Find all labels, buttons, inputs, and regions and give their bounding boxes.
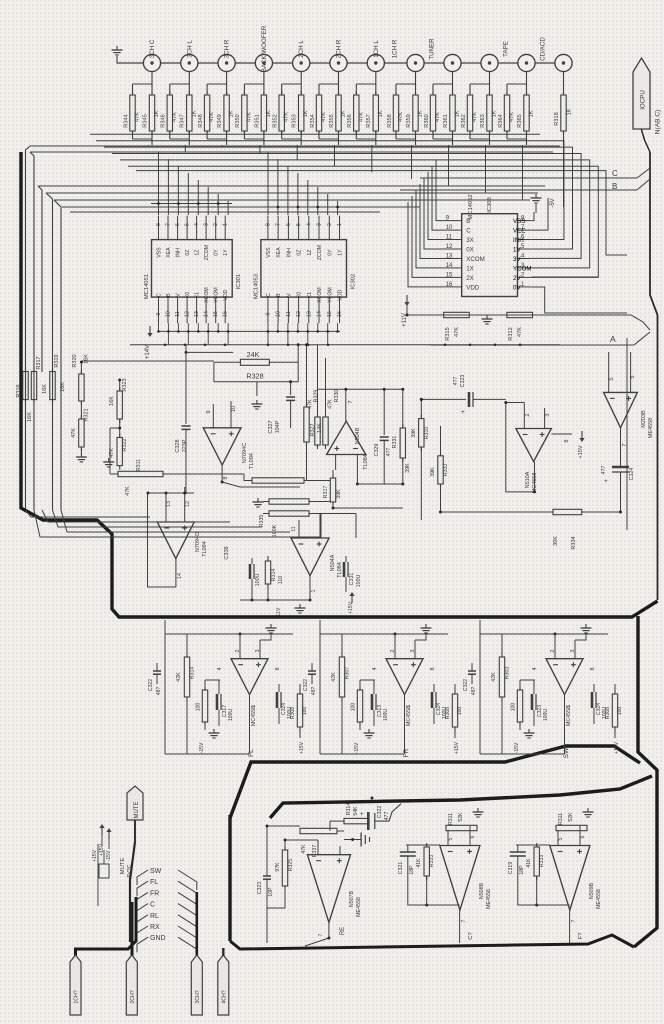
svg-text:R312: R312 xyxy=(508,327,514,340)
svg-text:V: V xyxy=(286,293,292,297)
svg-text:16: 16 xyxy=(446,282,453,288)
svg-text:R345: R345 xyxy=(142,114,148,127)
svg-text:47K: 47K xyxy=(135,112,141,122)
svg-text:100U: 100U xyxy=(383,709,389,721)
svg-text:47K: 47K xyxy=(398,112,404,122)
svg-text:C322: C322 xyxy=(377,806,383,819)
wire jack J10 leads xyxy=(489,72,491,96)
wire verticals to IC tops xyxy=(158,152,160,215)
svg-text:10: 10 xyxy=(166,311,172,317)
svg-text:C321: C321 xyxy=(398,862,404,875)
svg-text:3CH R: 3CH R xyxy=(224,39,231,58)
svg-text:2: 2 xyxy=(213,223,219,226)
svg-text:R349: R349 xyxy=(217,114,223,127)
svg-text:7: 7 xyxy=(276,223,282,226)
wire jack J4 leads xyxy=(263,72,265,96)
resistor R353 1K xyxy=(299,95,304,131)
svg-text:14: 14 xyxy=(317,311,323,317)
svg-text:TUNER: TUNER xyxy=(429,38,436,60)
wire MUTE lead xyxy=(134,820,136,842)
svg-text:6: 6 xyxy=(470,835,476,838)
resistor R307 42K xyxy=(339,657,344,697)
svg-text:0Z: 0Z xyxy=(297,250,303,256)
ground input common xyxy=(116,46,118,50)
wire SW inputs xyxy=(554,634,556,659)
wire jack J7 leads xyxy=(375,72,377,96)
wire FR tie xyxy=(319,620,321,634)
resistor R308 FL xyxy=(297,694,302,727)
svg-text:TL084: TL084 xyxy=(337,562,343,578)
svg-text:1K: 1K xyxy=(378,110,384,117)
op-amp FL xyxy=(231,659,268,695)
svg-text:1CH L: 1CH L xyxy=(373,40,380,58)
svg-text:MC4558: MC4558 xyxy=(566,706,572,726)
svg-text:47K: 47K xyxy=(284,112,290,122)
connector J11 input jack xyxy=(518,54,535,71)
connector J6 input jack xyxy=(330,54,347,71)
svg-text:13: 13 xyxy=(166,501,172,507)
resistor R308 FR xyxy=(452,694,457,727)
svg-text:47K: 47K xyxy=(509,112,515,122)
svg-text:1K: 1K xyxy=(154,110,160,117)
wire FL tie xyxy=(164,620,166,634)
svg-text:R314: R314 xyxy=(346,803,352,816)
svg-text:100U: 100U xyxy=(255,573,261,586)
capacitor C323 100U xyxy=(531,694,534,710)
wire I loop xyxy=(518,857,570,906)
svg-text:2CH L: 2CH L xyxy=(298,40,305,58)
wire opamp B out xyxy=(345,389,347,421)
svg-text:C: C xyxy=(612,169,618,178)
svg-text:IC301: IC301 xyxy=(236,274,242,289)
resistor R357 1K xyxy=(373,95,378,131)
svg-text:+14V: +14V xyxy=(145,345,151,359)
capacitor C323 4u7 xyxy=(468,392,471,407)
wire opamp F inputs xyxy=(608,373,610,392)
svg-text:MUTE: MUTE xyxy=(120,858,126,875)
op-amp U504A TL084 xyxy=(291,538,329,576)
svg-text:ME4558: ME4558 xyxy=(596,889,602,909)
wire nest horizontals xyxy=(30,145,560,147)
svg-text:16: 16 xyxy=(223,311,229,317)
wire jack feeds xyxy=(147,145,149,146)
svg-text:7: 7 xyxy=(571,919,577,922)
svg-text:RX: RX xyxy=(150,924,160,931)
svg-text:-15V: -15V xyxy=(199,742,205,753)
svg-text:3: 3 xyxy=(204,223,210,226)
capacitor C319 18P xyxy=(510,851,526,853)
svg-text:1CH R: 1CH R xyxy=(392,39,399,58)
svg-text:6: 6 xyxy=(286,223,292,226)
resistor R351 1K xyxy=(261,95,266,131)
wire FR output xyxy=(404,695,406,755)
svg-text:39K: 39K xyxy=(336,489,342,499)
svg-text:X0: X0 xyxy=(297,292,303,298)
svg-text:R355: R355 xyxy=(329,114,335,127)
svg-text:1K: 1K xyxy=(266,110,272,117)
wire jack J8 leads xyxy=(415,72,417,96)
resistor R316 16K xyxy=(23,372,28,400)
ground R335 xyxy=(257,498,259,502)
svg-text:+15V: +15V xyxy=(92,849,98,862)
svg-text:R325: R325 xyxy=(288,859,294,872)
svg-text:48?: 48? xyxy=(156,687,162,696)
svg-text:R361: R361 xyxy=(443,114,449,127)
resistor R361 1K xyxy=(450,95,455,131)
wire G rails xyxy=(266,826,268,856)
wire IC301 top junction row xyxy=(151,203,232,205)
svg-text:MC14051: MC14051 xyxy=(144,274,150,299)
svg-text:3: 3 xyxy=(317,223,323,226)
connector J12 input jack xyxy=(555,54,572,71)
ground IC303 xyxy=(535,194,537,198)
svg-text:ME4558: ME4558 xyxy=(648,418,654,439)
wire pair join xyxy=(132,131,134,139)
resistor R364 47K xyxy=(504,95,509,131)
ground opamp D xyxy=(299,604,301,608)
wire opamp A output xyxy=(222,465,300,487)
svg-text:1K: 1K xyxy=(418,110,424,117)
svg-text:1: 1 xyxy=(311,589,317,592)
svg-text:47K: 47K xyxy=(246,112,252,122)
svg-text:100: 100 xyxy=(351,703,357,712)
svg-text:R359: R359 xyxy=(406,114,412,127)
svg-text:TL094: TL094 xyxy=(202,541,208,557)
svg-text:1: 1 xyxy=(251,704,257,707)
resistor R323 16K xyxy=(117,391,122,419)
wire pair join xyxy=(318,131,320,139)
wire bus below ICs a xyxy=(158,330,340,332)
svg-text:R316: R316 xyxy=(16,384,22,397)
svg-text:15: 15 xyxy=(446,272,453,278)
svg-text:YCOM: YCOM xyxy=(214,287,220,303)
wire SW tie xyxy=(479,620,481,634)
svg-text:VDD: VDD xyxy=(466,284,480,291)
svg-text:8: 8 xyxy=(265,223,271,226)
svg-text:X1: X1 xyxy=(307,292,313,298)
svg-text:12: 12 xyxy=(446,244,453,250)
svg-text:R33J: R33J xyxy=(443,463,449,476)
wire IC303 right routing xyxy=(531,212,534,221)
svg-text:7: 7 xyxy=(318,933,324,936)
connector J4 input jack xyxy=(255,54,272,71)
svg-text:47K: 47K xyxy=(454,327,460,337)
wire H inputs xyxy=(447,830,449,846)
wire pair join xyxy=(469,131,471,139)
resistor R311 H xyxy=(446,825,477,830)
svg-text:R319: R319 xyxy=(54,354,60,367)
connector J5 input jack xyxy=(293,54,310,71)
svg-text:1Z: 1Z xyxy=(307,250,313,256)
svg-text:12: 12 xyxy=(185,501,191,507)
svg-text:1K: 1K xyxy=(191,110,197,117)
wire opamp F output xyxy=(620,428,622,467)
svg-text:4: 4 xyxy=(306,223,312,226)
svg-text:R331: R331 xyxy=(392,436,398,449)
svg-text:3X: 3X xyxy=(466,237,474,244)
svg-text:R317: R317 xyxy=(36,356,42,369)
svg-text:C328: C328 xyxy=(175,439,181,452)
capacitor C328 223P xyxy=(185,390,187,424)
wire stage SW rails xyxy=(479,634,481,754)
svg-text:9: 9 xyxy=(156,313,162,316)
svg-text:C: C xyxy=(157,293,163,297)
svg-text:8: 8 xyxy=(590,667,596,670)
svg-text:16K: 16K xyxy=(60,382,66,392)
svg-text:ME4558: ME4558 xyxy=(486,889,492,909)
svg-text:YCOM: YCOM xyxy=(513,265,532,272)
svg-text:R351: R351 xyxy=(254,114,260,127)
svg-text:24K: 24K xyxy=(247,350,260,359)
svg-text:XCOM: XCOM xyxy=(204,287,210,303)
wire mid rail xyxy=(421,398,466,400)
svg-text:-11V: -11V xyxy=(276,607,282,618)
resistor R310 39K xyxy=(419,419,424,447)
svg-text:ME4558: ME4558 xyxy=(356,897,362,917)
svg-text:R352: R352 xyxy=(273,114,279,127)
resistor R329 47K xyxy=(315,417,320,445)
svg-text:110: 110 xyxy=(278,576,284,584)
svg-text:8: 8 xyxy=(223,476,229,479)
wire IOCPU lead xyxy=(641,129,650,152)
resistor R325 xyxy=(282,850,287,886)
svg-text:MC14053: MC14053 xyxy=(253,274,259,299)
ground C322r rotated xyxy=(344,839,361,841)
svg-text:R353: R353 xyxy=(292,114,298,127)
svg-text:N(AB.C): N(AB.C) xyxy=(655,110,662,135)
resistor 100 SW xyxy=(517,690,522,722)
wire stub 352 xyxy=(186,351,233,353)
svg-text:R307: R307 xyxy=(345,667,351,680)
resistor R331 39K xyxy=(400,428,405,458)
connector J10 input jack xyxy=(481,54,498,71)
svg-text:4: 4 xyxy=(532,667,538,670)
svg-text:IC303: IC303 xyxy=(487,197,493,212)
ground SW cap xyxy=(528,729,530,733)
wire lower misc xyxy=(266,908,268,943)
svg-text:MC4558: MC4558 xyxy=(406,706,412,726)
ground FR cap xyxy=(368,729,370,733)
svg-text:18P: 18P xyxy=(409,865,415,875)
svg-text:1Y: 1Y xyxy=(223,249,229,256)
svg-text:9: 9 xyxy=(265,313,271,316)
svg-text:-15V: -15V xyxy=(514,742,520,753)
svg-text:B: B xyxy=(276,293,282,297)
capacitor C2 FL xyxy=(276,692,279,708)
capacitor C329 xyxy=(383,389,385,435)
svg-text:1V: 1V xyxy=(513,247,521,254)
wire R328 loop xyxy=(214,361,241,363)
resistor R317 16K xyxy=(31,372,36,400)
svg-text:16K: 16K xyxy=(84,354,90,364)
wire SW output xyxy=(564,695,566,755)
connector J7 input jack xyxy=(367,54,384,71)
svg-text:+: + xyxy=(461,409,465,416)
svg-text:C322: C322 xyxy=(148,679,154,691)
svg-text:+: + xyxy=(604,478,608,485)
wire I inputs xyxy=(557,830,559,846)
svg-text:FR: FR xyxy=(403,748,410,757)
svg-text:13: 13 xyxy=(194,311,200,317)
svg-text:100: 100 xyxy=(457,707,463,716)
op-amp U507B xyxy=(307,855,350,923)
svg-text:R363: R363 xyxy=(480,114,486,127)
svg-text:5: 5 xyxy=(630,375,636,378)
svg-text:8: 8 xyxy=(156,223,162,226)
resistor R319 16K xyxy=(50,372,55,400)
op-amp FR xyxy=(386,659,423,695)
svg-text:C: C xyxy=(466,228,471,235)
svg-text:GND: GND xyxy=(150,935,166,942)
svg-text:8: 8 xyxy=(564,439,570,442)
svg-text:0Y: 0Y xyxy=(214,249,220,256)
svg-text:+15V: +15V xyxy=(578,445,584,458)
svg-text:N7094D: N7094D xyxy=(195,532,201,552)
resistor R317b 39K xyxy=(330,478,335,502)
svg-text:R348: R348 xyxy=(198,114,204,127)
svg-text:4?7: 4?7 xyxy=(601,466,607,475)
svg-text:5: 5 xyxy=(609,377,615,380)
svg-text:XCOM: XCOM xyxy=(466,256,485,263)
svg-text:10: 10 xyxy=(276,311,282,317)
resistor R330 47K xyxy=(323,417,328,445)
svg-text:54K: 54K xyxy=(353,806,359,816)
svg-text:15: 15 xyxy=(327,311,333,317)
wire FR inputs xyxy=(394,634,396,659)
svg-text:2: 2 xyxy=(327,223,333,226)
svg-text:0V: 0V xyxy=(513,284,521,291)
svg-text:1X: 1X xyxy=(466,265,474,272)
svg-text:1K: 1K xyxy=(529,110,535,117)
svg-text:C329: C329 xyxy=(374,444,380,457)
svg-text:5: 5 xyxy=(558,837,564,840)
svg-text:R315: R315 xyxy=(445,327,451,340)
svg-text:12: 12 xyxy=(296,311,302,317)
svg-text:-15V: -15V xyxy=(106,850,112,861)
svg-text:R308: R308 xyxy=(445,707,451,719)
wire opamp C feedback xyxy=(148,493,176,587)
svg-text:3: 3 xyxy=(545,413,551,416)
wire opamp C net xyxy=(148,492,195,494)
op-amp U304B TL084 xyxy=(327,421,366,454)
svg-text:4: 4 xyxy=(194,223,200,226)
wire opamp D out xyxy=(309,576,311,600)
svg-text:5: 5 xyxy=(296,223,302,226)
svg-text:R346: R346 xyxy=(161,114,167,127)
svg-text:5: 5 xyxy=(448,837,454,840)
svg-text:INH: INH xyxy=(286,248,292,257)
resistor R354 47K xyxy=(316,95,321,131)
svg-text:0X: 0X xyxy=(466,247,474,254)
resistor R355 1K xyxy=(336,95,341,131)
svg-text:MUTE: MUTE xyxy=(134,802,140,819)
border lower-left right edge xyxy=(634,616,657,947)
svg-text:47K: 47K xyxy=(209,112,215,122)
svg-text:N508B: N508B xyxy=(479,882,485,899)
resistor R314 42K xyxy=(184,657,189,697)
svg-text:R308: R308 xyxy=(290,707,296,719)
resistor R318 1K xyxy=(561,95,566,131)
svg-text:8: 8 xyxy=(275,667,281,670)
net A wire xyxy=(430,344,634,346)
svg-text:R354: R354 xyxy=(310,114,316,127)
op-amp N508B xyxy=(440,846,480,911)
resistor R320 16K xyxy=(79,374,84,401)
svg-text:100U: 100U xyxy=(543,709,549,721)
capacitor Cin FR xyxy=(308,670,316,672)
svg-text:XCOM: XCOM xyxy=(317,287,323,303)
resistor R358 47K xyxy=(393,95,398,131)
svg-text:2X: 2X xyxy=(466,275,474,282)
resistor R333m 39K xyxy=(438,456,443,484)
capacitor Cin SW xyxy=(468,670,476,672)
wire FL output xyxy=(249,695,251,755)
svg-text:YCOM: YCOM xyxy=(327,287,333,303)
capacitor C322r 4u7 xyxy=(367,812,370,830)
svg-text:R356: R356 xyxy=(347,114,353,127)
svg-text:4: 4 xyxy=(372,667,378,670)
svg-text:223P: 223P xyxy=(182,439,188,452)
wire jack J1 leads xyxy=(151,72,153,96)
svg-text:N7094C: N7094C xyxy=(242,443,248,464)
resistor R347 1K xyxy=(187,95,192,131)
wire mute bus thick xyxy=(130,842,135,942)
svg-text:11: 11 xyxy=(175,311,181,317)
svg-text:0Y: 0Y xyxy=(327,249,333,256)
op-amp U309D TL094 xyxy=(157,522,194,559)
resistor R308 SW xyxy=(612,694,617,727)
svg-text:XEA: XEA xyxy=(166,247,172,258)
svg-text:MC4558: MC4558 xyxy=(251,706,257,726)
svg-text:5: 5 xyxy=(185,223,191,226)
resistor R350 47K xyxy=(242,95,247,131)
svg-text:R320: R320 xyxy=(72,354,78,367)
svg-text:V: V xyxy=(176,293,182,297)
resistor R326 in xyxy=(252,478,304,483)
svg-text:C323: C323 xyxy=(257,882,263,895)
svg-text:1K: 1K xyxy=(492,110,498,117)
svg-text:R321: R321 xyxy=(84,408,90,421)
connector 3CH? xyxy=(191,955,202,1015)
wire jack J11 leads xyxy=(526,72,528,96)
wire opamp B bottom xyxy=(332,502,334,508)
svg-text:A: A xyxy=(610,334,616,344)
ground below IC303 xyxy=(486,315,488,319)
svg-text:R323: R323 xyxy=(122,378,128,391)
svg-text:104P: 104P xyxy=(275,420,281,433)
resistor R363 1K xyxy=(487,95,492,131)
net B wire xyxy=(400,189,637,191)
wire mid bundle xyxy=(42,510,230,522)
svg-text:SW: SW xyxy=(150,868,162,875)
svg-text:42K: 42K xyxy=(491,672,497,682)
junction dots xyxy=(184,492,187,495)
svg-text:R329: R329 xyxy=(314,390,320,403)
svg-text:100U: 100U xyxy=(356,574,362,587)
svg-text:100K: 100K xyxy=(272,524,278,537)
svg-text:2: 2 xyxy=(525,413,531,416)
svg-text:R310: R310 xyxy=(424,427,430,440)
svg-text:R303: R303 xyxy=(505,667,511,680)
svg-text:2CH R: 2CH R xyxy=(336,39,343,58)
svg-text:ZCOM: ZCOM xyxy=(204,245,210,260)
svg-text:+15V: +15V xyxy=(299,741,305,754)
svg-text:11: 11 xyxy=(446,235,453,241)
svg-text:8: 8 xyxy=(430,667,436,670)
ground stage SW xyxy=(585,624,587,628)
connector J8 input jack xyxy=(407,54,424,71)
wire opamp A inputs xyxy=(212,404,214,429)
